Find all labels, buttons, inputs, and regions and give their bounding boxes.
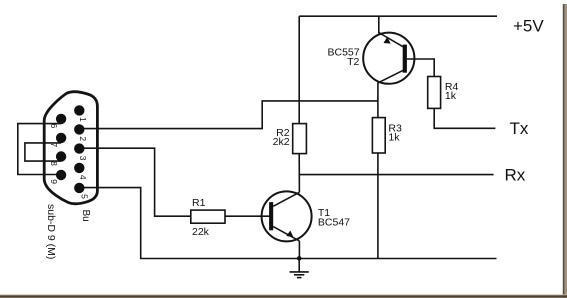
wire +5V rail down to T2 emitter — [378, 16, 380, 33]
svg-text:3: 3 — [78, 156, 88, 161]
svg-text:2k2: 2k2 — [273, 136, 290, 148]
connector pin 4 — [74, 163, 84, 173]
connector pin 6 — [56, 114, 66, 124]
resistor R2 — [273, 124, 307, 154]
jumper wire pin6 to pin9 — [18, 124, 61, 175]
connector pin 3 — [74, 143, 84, 153]
svg-text:T2: T2 — [347, 56, 359, 68]
svg-text:Bu: Bu — [80, 210, 91, 222]
resistor R3 — [372, 118, 402, 153]
T1 emitter diagonal with arrow (NPN, out of base) — [273, 227, 299, 241]
T2 base bar — [403, 45, 407, 73]
svg-text:Rx: Rx — [505, 165, 526, 184]
wire R3 bottom to ground rail — [377, 153, 379, 259]
ground symbol — [290, 259, 309, 278]
wire pin5 to ground rail / ground rail — [79, 188, 496, 259]
transistor T1 BC547 (NPN) — [262, 191, 351, 241]
svg-text:22k: 22k — [192, 226, 210, 238]
connector pin 8 — [56, 151, 66, 161]
resistor R1 — [191, 197, 225, 238]
transistor T2 BC557 (PNP) — [327, 33, 414, 84]
wire R1 to T1 base — [225, 215, 270, 217]
right border shadow — [563, 4, 567, 298]
resistor R4 — [428, 77, 459, 109]
svg-text:Tx: Tx — [510, 119, 529, 138]
+5V supply rail — [299, 15, 497, 17]
T2 collector diagonal — [378, 70, 403, 83]
connector pin 5 — [74, 183, 84, 193]
wire T1 emitter down to ground rail — [298, 241, 300, 259]
svg-text:+5V: +5V — [513, 17, 544, 36]
svg-text:5: 5 — [80, 194, 90, 199]
svg-text:sub-D 9 (M): sub-D 9 (M) — [45, 204, 57, 259]
svg-text:1k: 1k — [445, 90, 457, 102]
svg-text:1k: 1k — [388, 132, 400, 144]
svg-text:9: 9 — [49, 179, 59, 184]
wire pin3 to R1 — [79, 148, 190, 216]
connector pin 2 — [74, 124, 84, 134]
svg-text:8: 8 — [49, 161, 59, 166]
bottom border shadow — [0, 294, 567, 298]
wire T2 collector down to R3 — [377, 83, 379, 118]
connector J1 sub-D 9 (M) outline — [44, 92, 97, 204]
connector pin 1 — [74, 105, 84, 115]
jumper wire pin7 to pin8 — [25, 143, 61, 161]
svg-text:1: 1 — [78, 117, 88, 122]
Rx line — [299, 174, 493, 176]
connector pin 7 — [56, 133, 66, 143]
svg-text:6: 6 — [49, 124, 59, 129]
junction dot at T1 emitter / ground rail — [297, 256, 302, 261]
wire T2 base to R4 — [407, 59, 434, 77]
T1 collector diagonal — [273, 192, 299, 206]
svg-text:BC547: BC547 — [318, 216, 350, 228]
wire +5V rail down to R2 — [298, 16, 300, 123]
wire pin2 to node at T2 collector / R3 top — [79, 101, 378, 129]
svg-text:2: 2 — [78, 136, 88, 141]
svg-text:7: 7 — [49, 143, 59, 148]
wire R4 bottom to Tx line / Tx line — [434, 108, 495, 128]
wire R2 bottom to T1 collector — [298, 154, 300, 193]
T2 emitter diagonal with arrow (PNP, into base) — [379, 33, 403, 47]
svg-text:4: 4 — [78, 175, 88, 180]
svg-text:R1: R1 — [192, 197, 206, 209]
T1 base bar — [269, 202, 273, 230]
connector pin 9 — [56, 170, 66, 180]
